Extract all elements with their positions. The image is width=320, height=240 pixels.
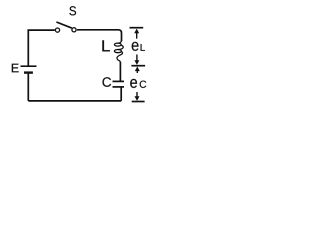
switch S right contact (72, 28, 76, 32)
battery E short plate (24, 71, 33, 73)
label C (102, 77, 111, 87)
inductor L coil: loop 2 (114, 50, 121, 53)
dimension arrow up to middle bar (136, 70, 138, 73)
capacitor C top plate (113, 80, 125, 82)
label L (102, 40, 110, 51)
dimension arrow down to bottom bar (136, 92, 138, 97)
label eC letter e (130, 79, 137, 88)
battery E bottom stem (27, 73, 29, 101)
bottom wire (28, 100, 121, 102)
wire inductor to capacitor (119, 62, 121, 81)
label eL subscript L (141, 44, 145, 51)
label S (69, 6, 76, 15)
switch S left contact (55, 28, 59, 32)
switch S blade (56, 22, 71, 28)
label eL letter e (132, 42, 139, 51)
dimension middle bar (131, 65, 145, 67)
inductor L coil: exit hook (117, 52, 123, 63)
dimension arrow up to top bar (136, 33, 138, 39)
dimension arrow down to middle bar (136, 55, 138, 62)
capacitor C bottom plate (113, 86, 125, 88)
label E (12, 64, 19, 73)
wire top-right: switch right contact to corner and down to inductor (77, 30, 122, 41)
wire capacitor to bottom (120, 87, 122, 101)
dimension top bar (130, 27, 144, 29)
dimension bottom bar (132, 101, 145, 103)
inductor L coil: entry hook (118, 40, 122, 43)
inductor L coil: loop 1 (114, 43, 121, 46)
wire left: battery up and right to switch left contact (28, 30, 55, 66)
inductor L coil: connector loop1 to loop2 (118, 45, 123, 49)
battery E long plate (21, 65, 37, 67)
label eC subscript C (140, 81, 147, 88)
